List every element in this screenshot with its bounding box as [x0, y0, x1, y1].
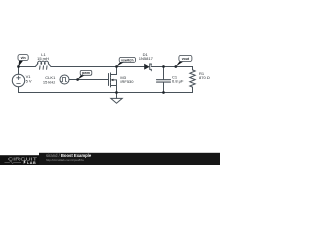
- wire V1 bottom lead: [18, 87, 20, 93]
- label C1 value: [172, 75, 184, 84]
- svg-text:vswitch: vswitch: [121, 58, 133, 62]
- node dot pwm: [76, 78, 79, 81]
- transistor M3 channel segments: [110, 73, 112, 87]
- svg-text:870 Ω: 870 Ω: [199, 75, 210, 80]
- capacitor C1 plates: [157, 80, 171, 82]
- transistor M3 drain lead: [111, 67, 117, 75]
- transistor M3 body lead: [113, 79, 117, 81]
- resistor R1 zigzag: [190, 70, 195, 93]
- label D1 value: [139, 52, 154, 61]
- label L1 value: [37, 52, 49, 61]
- wire top rail middle (inductor to diode anode, through vswitch node): [51, 66, 144, 68]
- junction C1 bottom: [162, 91, 165, 94]
- label R1 value: [199, 71, 210, 80]
- svg-text:IRF530: IRF530: [120, 79, 134, 84]
- wire top rail left (vin to inductor): [19, 66, 36, 68]
- svg-text:vout: vout: [182, 57, 190, 61]
- node flag vout: [176, 55, 192, 66]
- transistor M3 source lead: [111, 80, 117, 93]
- wire top rail right (diode cathode to R1 top corner): [151, 67, 192, 70]
- node flag vswitch: [117, 57, 136, 66]
- node flag pwm: [78, 70, 92, 79]
- node flag vin: [18, 55, 28, 67]
- ground triangle: [111, 98, 122, 103]
- V1 minus sign: [17, 82, 21, 84]
- capacitor C1 top lead: [163, 67, 165, 80]
- V1 plus sign: [17, 76, 21, 80]
- wire CLK1 output to gate: [69, 79, 109, 81]
- node dot vout: [174, 65, 177, 68]
- junction ground: [115, 91, 118, 94]
- svg-text:http://circuitlab.com/c/psu8Xa: http://circuitlab.com/c/psu8Xa: [46, 158, 84, 162]
- svg-text:6.8 µF: 6.8 µF: [172, 78, 184, 83]
- junction C1 top: [162, 65, 165, 68]
- voltage source V1 circle: [12, 74, 24, 86]
- wire V1 top lead: [18, 67, 20, 75]
- svg-text:5 V: 5 V: [26, 79, 32, 84]
- clock source CLK1 circle: [60, 75, 69, 84]
- wire bottom rail: [19, 92, 193, 94]
- label CLK1 value: [43, 75, 56, 85]
- diode D1 cathode bar with schottky hooks: [150, 64, 152, 71]
- label M3 value: [120, 75, 134, 84]
- diode D1 triangle: [144, 64, 150, 70]
- svg-text:15 kHz: 15 kHz: [43, 80, 55, 85]
- capacitor C1 bottom lead: [163, 83, 165, 93]
- footer bar: [0, 153, 220, 165]
- svg-text:LAB: LAB: [27, 161, 36, 165]
- svg-text:15 mH: 15 mH: [37, 56, 49, 61]
- CLK1 square wave glyph: [61, 78, 66, 82]
- node dot vswitch: [115, 65, 118, 68]
- transistor M3 body arrow: [111, 79, 114, 81]
- node dot vin: [17, 65, 20, 68]
- label V1 value: [26, 74, 32, 84]
- transistor M3 gate bar: [108, 74, 110, 86]
- svg-text:1N5817: 1N5817: [139, 56, 154, 61]
- ground stub: [116, 93, 118, 99]
- svg-text:vin: vin: [21, 56, 26, 60]
- inductor L1: [35, 61, 51, 69]
- svg-text:pwm: pwm: [82, 71, 90, 75]
